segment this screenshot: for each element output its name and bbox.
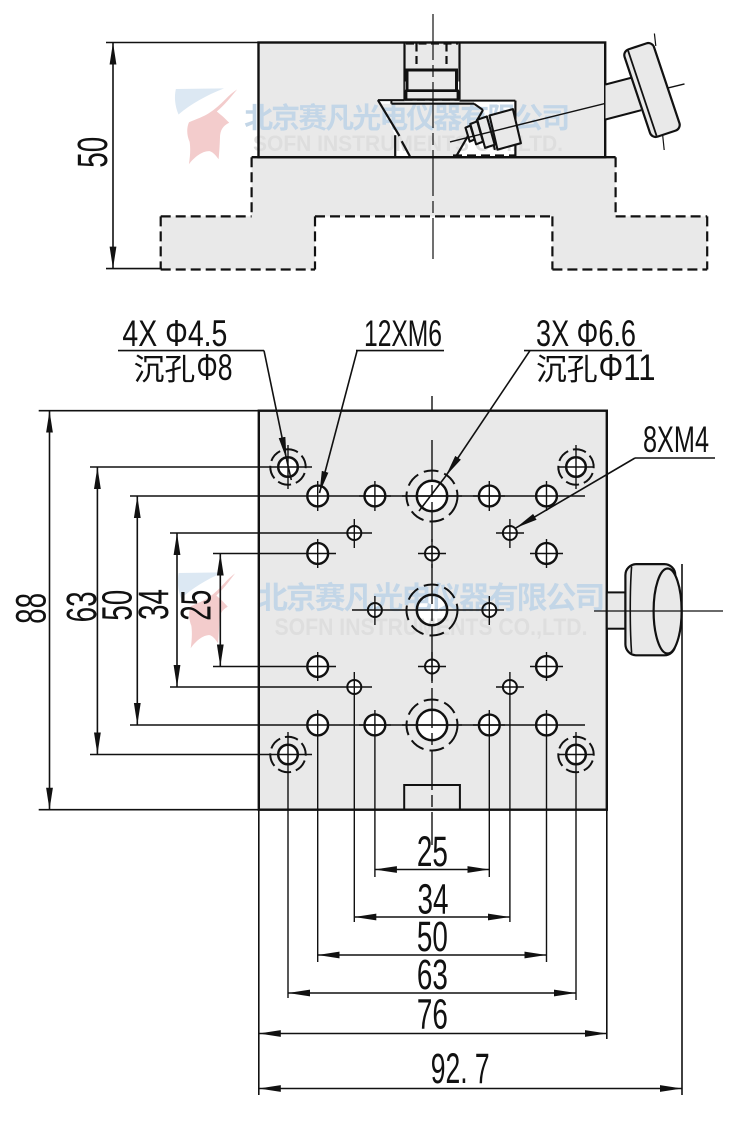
watermark logo (top view) [175,88,237,164]
side view: top slab gray fill [259,43,606,158]
svg-text:92. 7: 92. 7 [431,1045,490,1093]
dimension 50 line (vertical) [136,496,138,725]
bottom extension lines [258,810,260,1095]
svg-text:Φ8: Φ8 [197,347,233,388]
dimension 25 line (horizontal) [375,869,489,871]
side knob centerline ticks [654,34,655,47]
plate gray body [259,411,607,810]
dimension 92.7 line (horizontal) [259,1088,682,1090]
watermark chinese (top view) [245,103,568,131]
side knob body [623,41,682,138]
watermark chinese (plate view) [258,582,603,612]
svg-text:Φ11: Φ11 [599,347,656,388]
dimension 50 line (horizontal) [318,954,547,956]
svg-text:88: 88 [8,593,56,624]
svg-text:76: 76 [417,991,448,1039]
dimension 88 line [49,411,51,810]
dimension 25 line (vertical) [219,554,221,667]
side view centerline [432,14,434,259]
leader 8xM4 [516,458,635,528]
middle slab dashed right edge [614,157,616,216]
V cavity white [378,100,516,157]
top slab outline [259,43,606,158]
carriage plate outline [390,100,392,104]
carriage hidden bottom edge [453,154,515,156]
carriage body outline [456,110,483,157]
screw hidden seat line [405,99,460,101]
svg-text:34: 34 [130,589,178,620]
screw cavity walls [403,43,405,100]
M4 tapped holes (8x) [347,526,517,694]
carriage body gray [381,104,484,157]
svg-text:8XM4: 8XM4 [643,419,709,460]
plate knob body [625,564,675,655]
bottom notch [404,785,460,810]
svg-text:SOFN INSTRUMENTS CO.,LTD.: SOFN INSTRUMENTS CO.,LTD. [275,614,588,641]
white reliefs beside screw head [405,82,408,91]
middle slab dashed left edge [251,157,253,216]
plate knob axis centerline [594,610,723,612]
carriage plate gray [391,101,474,104]
leader 3xPhi6.6 [446,351,530,476]
watermark logo (plate view) [178,572,235,648]
side knob shaft [606,78,642,120]
dimension 34 line (horizontal) [354,916,510,918]
hole crosshairs & row/column lines [90,396,594,1000]
leader 12xM6 [320,350,358,493]
dimension 76 line (horizontal) [259,1033,607,1035]
svg-text:25: 25 [172,590,220,621]
dimension 63 line (horizontal) [288,992,576,994]
hole interiors (white) [278,457,586,764]
3x phi6.6 counterbored holes [417,481,447,740]
svg-text:25: 25 [417,828,448,876]
middle slab top edge [252,156,616,158]
svg-text:12XM6: 12XM6 [364,313,442,354]
dimension 63 line (vertical) [96,467,98,755]
screw collar [406,91,458,100]
label underlines [118,350,264,352]
svg-text:50: 50 [69,137,117,168]
screw head [407,70,457,91]
set screw / knob axis line [450,95,638,141]
plate knob shaft [607,592,626,628]
plate outline [259,411,607,810]
dimension 34 line (vertical) [176,533,178,687]
side view: middle slab + base feet gray fill [161,157,708,269]
dimension 50 (side view) [106,43,259,269]
leader 4xPhi4.5 [264,351,287,459]
plate knob face ellipse [654,569,682,654]
set screw [466,109,521,150]
V cavity outline [378,99,405,101]
4x phi4.5 counterbored corner holes [278,457,586,764]
M6 tapped holes (12x) [307,486,557,736]
base dashed outline [161,216,708,269]
hex socket hidden lines [406,44,458,68]
